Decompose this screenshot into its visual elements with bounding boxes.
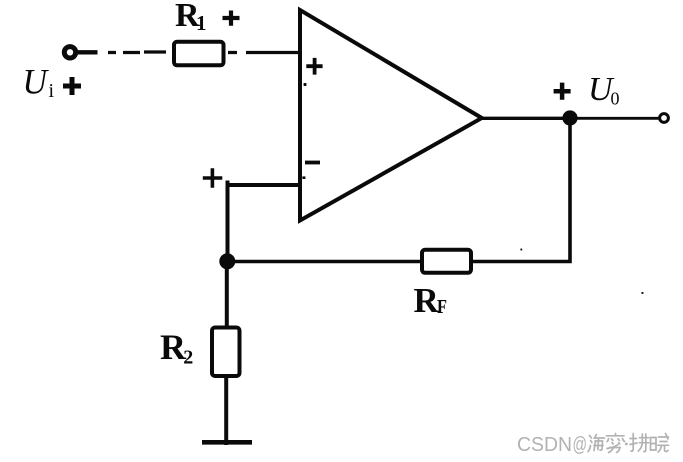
plus sign above R1 <box>223 11 240 26</box>
output terminal Uo <box>660 114 669 123</box>
plus sign at output <box>554 83 571 100</box>
speck below - input <box>302 176 305 179</box>
svg-text:U: U <box>23 62 49 102</box>
watermark glyph hai <box>588 435 605 452</box>
resistor R2 <box>212 328 240 377</box>
resistor R1 <box>174 42 224 66</box>
wire node A to R2 <box>225 262 229 328</box>
ground <box>202 440 252 445</box>
plus sign at Ui <box>63 77 81 95</box>
wire R2 to ground <box>224 376 228 445</box>
wire input to R1 (dash-dot) <box>108 50 166 54</box>
watermark middle dot <box>625 443 628 446</box>
svg-text:0: 0 <box>611 89 620 109</box>
input terminal Ui <box>64 47 97 58</box>
speck below + input <box>304 83 307 86</box>
speck below output wire <box>642 292 644 294</box>
wire node B to output terminal <box>577 117 659 120</box>
op-amp - input symbol <box>305 161 320 165</box>
op-amp U1 <box>300 10 482 221</box>
node A junction <box>219 253 235 269</box>
svg-text:CSDN: CSDN <box>517 433 572 456</box>
watermark glyph fu <box>630 434 649 452</box>
watermark glyph xiao <box>651 434 669 453</box>
wire node A to RF <box>230 260 420 264</box>
op-amp + input symbol <box>306 58 322 75</box>
plus sign near inverting input <box>203 168 223 188</box>
svg-text:i: i <box>49 80 55 102</box>
wire R1 to op-amp noninverting input <box>228 51 300 54</box>
wire inverting input <box>228 181 301 259</box>
speck near RF wire <box>520 249 522 251</box>
svg-text:R: R <box>414 281 440 320</box>
svg-text:F: F <box>437 296 447 318</box>
svg-text:2: 2 <box>183 347 193 369</box>
svg-text:@: @ <box>573 433 588 456</box>
wire op-amp output <box>480 117 566 120</box>
wire RF to output node <box>471 122 570 262</box>
resistor RF <box>422 250 471 273</box>
svg-text:1: 1 <box>196 11 207 35</box>
watermark glyph wu <box>607 434 625 453</box>
node B output junction <box>562 110 577 125</box>
